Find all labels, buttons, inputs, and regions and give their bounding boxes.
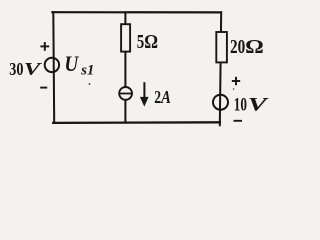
svg-text:s1: s1 — [80, 62, 94, 78]
current source bar — [119, 93, 132, 95]
svg-text:10: 10 — [234, 95, 247, 116]
wire left branch — [52, 12, 55, 122]
svg-text:V: V — [24, 59, 42, 79]
svg-text:2A: 2A — [154, 87, 171, 107]
polarity minus of 30V source — [40, 87, 47, 89]
ink speck under subscript — [89, 83, 91, 85]
wire bottom bus — [53, 121, 220, 124]
resistor 20ohm — [216, 32, 227, 62]
wire middle branch — [124, 12, 126, 122]
polarity plus of 10V source — [232, 77, 240, 85]
current source 2A circle — [119, 87, 132, 100]
voltage source 10V circle — [213, 95, 228, 110]
ink speck near plus of 10V — [233, 88, 235, 90]
svg-text:20Ω: 20Ω — [230, 37, 264, 58]
svg-text:5Ω: 5Ω — [137, 32, 158, 53]
svg-text:30: 30 — [9, 59, 23, 79]
svg-text:U: U — [64, 51, 79, 77]
polarity minus of 10V source — [234, 120, 243, 122]
wire top bus — [52, 11, 221, 13]
current arrow 2A — [140, 82, 149, 106]
wire right branch — [220, 12, 221, 125]
voltage source U_s1 circle — [45, 58, 59, 72]
svg-text:V: V — [248, 94, 269, 115]
resistor 5ohm — [121, 24, 130, 51]
polarity plus of 30V source — [40, 42, 49, 51]
